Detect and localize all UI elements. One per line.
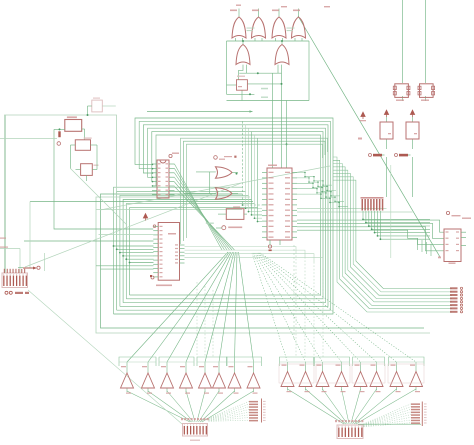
power VCC1	[361, 112, 365, 119]
label sw3 pins	[335, 420, 337, 422]
label u2 plus	[438, 257, 441, 259]
buffer left 1	[121, 373, 134, 388]
gnd U1	[268, 245, 271, 248]
wire bus loop 3	[120, 125, 328, 307]
wire triangle stub L3	[166, 362, 168, 373]
wire rconn fan 8	[356, 389, 416, 424]
wire fan right 6	[258, 253, 377, 362]
wire lconn fan 1	[127, 391, 190, 422]
wire inner bus 2	[184, 141, 326, 241]
wire b4 drop	[386, 139, 388, 149]
wire u1 stair 3	[297, 183, 340, 196]
wire triangle stub R5	[360, 362, 362, 372]
wire rcol link 3	[364, 409, 412, 425]
wire ic2 right net 2	[185, 250, 306, 257]
wire pair bracket L2	[159, 357, 194, 366]
wire lcol link 6	[209, 415, 250, 421]
switch S2	[58, 131, 60, 137]
wire ic2 pin net 7	[96, 265, 154, 267]
wire header net 4	[333, 167, 452, 302]
wire xtal2 net	[425, 0, 427, 83]
wire bus loop 1	[114, 118, 334, 314]
jumper J1	[369, 154, 372, 157]
wire dip v4	[44, 253, 46, 271]
IC U1	[267, 168, 292, 240]
wire rconn fan 5	[351, 389, 361, 424]
box B4	[380, 122, 393, 139]
wire rail right edge	[308, 41, 310, 101]
flip-flop U3	[237, 80, 248, 91]
IC IC1	[157, 160, 169, 198]
wire lconn fan 8	[202, 391, 254, 422]
buffer left 3	[161, 373, 174, 388]
power VCC2	[384, 110, 388, 117]
wire rcol link 2	[364, 407, 412, 425]
box B5	[406, 122, 419, 139]
wire fan left 2	[148, 252, 230, 362]
wire s4 bottom	[86, 175, 88, 181]
wire b5 drop	[412, 139, 414, 149]
wire header net 7	[333, 177, 452, 292]
wire or gate 4 inputs	[294, 38, 296, 41]
IC IC2	[158, 223, 179, 281]
connector SW3	[337, 425, 363, 439]
pinheader JP2	[249, 401, 258, 403]
wire ic2 pin net 1	[114, 245, 154, 247]
wire rail y94	[227, 93, 255, 95]
label cluster	[361, 197, 384, 199]
wire bus drop 4	[252, 132, 263, 215]
wire s3 left	[71, 144, 76, 146]
label left edge1	[0, 238, 6, 239]
wire or gate 2 inputs	[254, 38, 256, 41]
arrow A1	[23, 267, 37, 270]
wire pair bracket R2	[315, 357, 350, 366]
wire cluster drop 1	[363, 211, 430, 219]
wire rconn fan 4	[342, 389, 350, 424]
wire ic1 fan 1	[175, 164, 223, 250]
wire rail y73	[239, 72, 281, 74]
wire triangle stub R2	[305, 362, 307, 372]
wire rcol link 6	[364, 417, 412, 426]
wire ic2 pin net 6	[130, 262, 154, 264]
wire u1 right net f	[297, 211, 413, 213]
wire ic2 right net 1	[185, 247, 297, 253]
wire dip v3	[29, 202, 31, 268]
wire lconn fan 4	[186, 391, 195, 422]
wire g5 stub2	[246, 65, 248, 74]
IC U2	[444, 229, 461, 262]
wire net y229	[54, 129, 153, 229]
wire bus left riser 1	[114, 187, 243, 314]
wire bus left riser 2	[117, 191, 246, 310]
wire right stair 1	[417, 238, 419, 250]
buffer right 4	[335, 372, 348, 387]
wire u5 right	[244, 213, 247, 215]
wire header net 2	[333, 160, 452, 308]
label u3	[237, 76, 245, 78]
or-gate IC4A	[236, 45, 250, 65]
wire b1 bottom	[241, 90, 243, 100]
wire fan left 4	[186, 252, 233, 362]
wire g5 out riser	[242, 41, 244, 45]
buffer left 8	[247, 373, 260, 388]
wire bus drop 5	[255, 135, 263, 218]
wire lcol link 3	[209, 407, 250, 420]
wire triangle stub L4	[185, 362, 187, 373]
label top1	[236, 5, 241, 6]
wire u4 right	[102, 105, 116, 107]
wire bus left riser 4	[123, 200, 251, 303]
wire g5 to b1	[239, 65, 244, 80]
wire net y201	[30, 201, 253, 203]
wire bus loop 6	[130, 135, 321, 295]
buffer left 6	[213, 373, 226, 388]
wire ic1 fan 4	[175, 178, 230, 251]
buffer right 6	[370, 372, 383, 387]
frame right pairs	[279, 364, 314, 383]
label ic1	[172, 153, 179, 154]
pad P6	[153, 225, 156, 228]
wire pair bracket L4	[227, 357, 262, 366]
wire dashed drop L3	[212, 290, 214, 357]
wire diagonal shallow	[100, 166, 330, 210]
wire g5 region drop	[272, 73, 274, 168]
wire net y205	[96, 209, 242, 211]
wire net y248	[0, 248, 20, 250]
wire bus drop 1	[243, 121, 263, 205]
pad P1	[57, 142, 61, 146]
wire triangle stub L1	[126, 362, 128, 373]
wire g7 in	[196, 171, 216, 173]
label u2 bottom	[449, 263, 456, 264]
wire header net 8	[333, 180, 452, 289]
wire triangle stub L6	[218, 362, 220, 373]
wire cluster drop 5	[375, 211, 430, 233]
or-gate IC3C	[272, 17, 286, 38]
wire pair bracket L1	[119, 357, 156, 366]
buffer right 2	[299, 372, 312, 387]
wire lconn fan 7	[200, 391, 234, 422]
wire header net 6	[333, 174, 452, 296]
wire inner bus 1	[181, 138, 328, 244]
buffer right 5	[354, 372, 367, 387]
wire fan left 3	[167, 252, 231, 362]
wire u4 left	[88, 105, 92, 107]
power VCC3	[410, 110, 414, 117]
wire ic1 fan 6	[175, 187, 235, 251]
wire net y241	[24, 240, 154, 242]
wire rcol link 4	[364, 412, 412, 425]
wire dip-lconn diagonal	[28, 290, 182, 424]
label c2	[421, 100, 429, 101]
wire diagonal to right connector	[298, 16, 440, 257]
wire net y234	[99, 234, 154, 236]
junction mark	[234, 156, 236, 158]
wire ic1 fan 3	[175, 173, 228, 250]
wire triangle stub R3	[322, 362, 324, 372]
wire bus loop 5	[126, 132, 323, 299]
wire xtal1 net	[402, 0, 404, 83]
wire fan right 1	[252, 253, 288, 362]
wire rcol link 8	[364, 423, 412, 427]
wire fan right 8	[260, 253, 416, 362]
wire j1 drop	[386, 157, 388, 197]
wire or gate 4 output	[298, 9, 300, 18]
wire dashed drop 4	[322, 267, 324, 357]
wire triangle stub R1	[287, 362, 289, 372]
wire triangle stub R6	[376, 362, 378, 372]
wire u2 net d	[297, 230, 444, 244]
label sw2 bottom	[190, 440, 200, 442]
wire fan right 5	[257, 253, 361, 362]
wire fan right 4	[256, 253, 342, 362]
wire or gate 2 output	[258, 9, 260, 18]
label grn1	[206, 223, 214, 224]
pad P2	[214, 156, 218, 160]
wire rail y84	[247, 83, 281, 85]
wire lconn fan 3	[167, 391, 193, 422]
label u1 top	[268, 165, 277, 167]
wire lcol link 7	[209, 418, 250, 421]
wire bus loop 4	[123, 128, 325, 302]
wire fan right 7	[259, 253, 396, 362]
wire ic2 pin net 2	[117, 248, 154, 250]
jumper J2	[395, 154, 398, 157]
box S3	[75, 140, 90, 151]
wire u1 stair 2	[297, 178, 336, 191]
wire rcol link 5	[364, 415, 412, 426]
wire right stair 2	[421, 240, 423, 252]
wire fan left 5	[205, 252, 234, 362]
or-gate IC3B	[252, 17, 266, 38]
wire dashed drop L2	[204, 286, 206, 357]
wire triangle stub L5	[204, 362, 206, 373]
wire ic2 right net 3	[185, 254, 315, 262]
label nine	[358, 138, 362, 140]
dff U5	[226, 209, 244, 220]
buffer right 3	[316, 372, 329, 387]
wire u1 right net e	[297, 208, 387, 210]
wire lconn fan 2	[148, 391, 192, 422]
wire bus drop 6	[258, 138, 263, 221]
wire diagonal 45	[71, 169, 128, 226]
or-gate IC4B	[275, 45, 289, 65]
wire g6 out riser	[281, 41, 283, 45]
wire fan left 7	[235, 252, 238, 362]
box S4	[81, 164, 93, 176]
wire pair bracket R4	[389, 357, 425, 366]
wire u1 stair 5	[297, 194, 348, 207]
wire u5 left	[218, 213, 226, 215]
wire u1 stair 1	[297, 173, 332, 186]
buffer right 1	[281, 372, 294, 387]
wire b5 top	[412, 117, 414, 122]
capacitor C2	[420, 84, 434, 98]
wire ic2 right net 4	[185, 257, 324, 267]
buffer left 7	[228, 373, 241, 388]
wire g6 output drop	[281, 65, 283, 168]
or-gate G7	[216, 167, 233, 178]
wire bus drop 3	[249, 128, 263, 211]
or-gate G8	[216, 188, 233, 199]
junction dots ic1	[152, 164, 154, 166]
label g1	[230, 10, 237, 12]
wire cluster drop 4	[372, 211, 430, 229]
wire or gate 3 inputs	[275, 38, 277, 41]
pinheader JP1	[450, 287, 458, 289]
wire dashed drop 3	[313, 262, 315, 357]
wire ic1 fan 2	[175, 169, 225, 251]
wire bus loop 2	[117, 121, 331, 310]
wire ic1 fan 5	[175, 182, 233, 250]
wire net y138	[0, 138, 57, 140]
label top3	[324, 6, 330, 7]
label net96	[261, 97, 268, 98]
wire b1 left	[227, 84, 237, 86]
wire g6 stub2	[277, 65, 279, 74]
wire dip arrow tail	[18, 267, 23, 269]
wire rail y100	[227, 100, 310, 102]
or-gate IC3A	[232, 17, 246, 38]
wire u2 net b	[297, 223, 444, 238]
wire ic2 pin net 5	[126, 258, 153, 260]
label trig	[261, 88, 268, 90]
wire or gate 1 output	[238, 9, 240, 18]
wire bus left riser 6	[130, 208, 258, 295]
wire rcol link 1	[364, 404, 412, 424]
wire fan right 2	[253, 253, 305, 362]
wire outer bus A	[96, 197, 430, 333]
wire bus left riser 3	[120, 195, 249, 306]
buffer right 7	[390, 372, 403, 387]
wire triangle stub R4	[341, 362, 343, 372]
box S1	[65, 120, 82, 132]
wire ic2 pin net 3	[120, 252, 154, 254]
power VCC4	[143, 214, 147, 221]
wire triangle stub L2	[147, 362, 149, 373]
label ic2 bottom	[156, 285, 172, 287]
wire pair bracket R1	[280, 357, 314, 366]
wire triangle stub R7	[396, 362, 398, 372]
label g3 type	[287, 28, 295, 29]
wire rconn fan 1	[288, 389, 345, 424]
wire s4 left	[76, 169, 81, 171]
wire g8 in	[184, 192, 216, 194]
wire pair bracket L3	[197, 357, 227, 366]
buffer left 5	[199, 373, 212, 388]
wire left frame	[5, 115, 117, 273]
label g2	[252, 10, 259, 12]
wire triangle stub R8	[415, 362, 417, 372]
buffer left 2	[142, 373, 155, 388]
wire right stair 4	[430, 244, 432, 256]
buffer left 4	[180, 373, 193, 388]
wire rconn fan 7	[354, 389, 396, 424]
wire dashed drop 1	[295, 252, 297, 357]
wire g8 out	[232, 193, 238, 195]
wire cluster drop 7	[380, 211, 430, 239]
connector SW2	[183, 424, 208, 437]
wire dashed drop 2	[304, 257, 306, 357]
wire s3 right	[91, 144, 98, 146]
wire outer bus B	[101, 194, 425, 328]
wire lcol link 5	[209, 412, 250, 420]
wire u2 net c	[297, 227, 444, 251]
wire bus drop 2	[246, 125, 263, 209]
pad P3	[222, 226, 226, 230]
wire rconn fan 2	[306, 389, 346, 424]
label sw1 pads	[5, 291, 8, 294]
wire header net 5	[333, 170, 452, 298]
wire dashed drop L1	[196, 282, 198, 357]
wire or gate 1 inputs	[235, 38, 237, 41]
label g4	[293, 10, 300, 12]
wire rconn fan 6	[353, 389, 377, 424]
wire dip v1	[5, 115, 7, 273]
gnd IC2	[151, 276, 154, 279]
wire g7 out	[232, 172, 238, 174]
label g1 type	[247, 28, 255, 29]
wire ic2 pin net 8	[101, 268, 154, 270]
wire fan left 6	[219, 252, 236, 362]
label g3	[272, 10, 279, 12]
wire lcol link 4	[209, 409, 250, 419]
pad P4	[169, 154, 172, 157]
wire u1 stair 4	[297, 189, 344, 202]
wire b4 top	[386, 117, 388, 122]
pinheader JP3	[411, 403, 420, 405]
pad P5	[446, 211, 449, 214]
wire rail y41	[227, 40, 310, 42]
wire lcol link 2	[209, 404, 250, 419]
wire rconn fan 3	[323, 389, 348, 424]
wire cluster drop 2	[366, 211, 430, 223]
label c1	[396, 100, 404, 101]
wire arrow net y111	[147, 111, 253, 113]
wire s4 right	[92, 169, 97, 171]
wire lcol link 1	[209, 401, 250, 418]
wire u2 net a	[297, 220, 444, 232]
wire u1 bottom stub	[279, 240, 281, 245]
wire ic2 pin net 4	[123, 255, 153, 257]
wire j2 drop	[412, 157, 414, 197]
wire s1 right	[82, 128, 85, 130]
wire fan left 1	[127, 252, 228, 362]
or-gate IC3D	[292, 17, 306, 38]
label sw2 pins	[181, 418, 183, 420]
wire or gate 3 output	[278, 9, 280, 18]
wire lconn fan 5	[197, 391, 205, 422]
wire rcol solid	[358, 423, 421, 425]
wire vert x390	[390, 165, 392, 258]
wire fan right 3	[254, 253, 322, 362]
wire header net 1	[333, 157, 452, 312]
wire dip v2	[19, 249, 21, 274]
wire cluster drop 3	[369, 211, 430, 226]
capacitor C1	[395, 84, 409, 98]
connector SW1	[2, 273, 28, 288]
wire rail left edge	[226, 41, 228, 94]
wire lcol link 8	[209, 420, 250, 421]
wire s1 left	[54, 128, 65, 130]
wire cluster drop 6	[378, 211, 431, 236]
wire triangle stub L8	[253, 362, 255, 373]
wire rcol link 7	[364, 420, 412, 426]
wire drop x287	[286, 101, 288, 169]
wire lconn fan 6	[199, 391, 220, 422]
wire dashed below u1	[293, 245, 295, 340]
